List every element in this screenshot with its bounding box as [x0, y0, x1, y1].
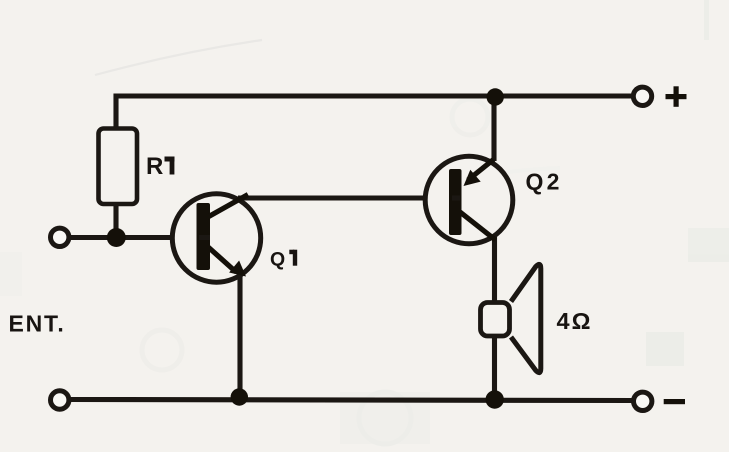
wire Q2 collector through speaker to bottom rail — [492, 236, 497, 399]
junction node Q2 / bottom rail — [486, 390, 504, 408]
speaker box — [481, 303, 510, 337]
svg-text:4Ω: 4Ω — [557, 308, 593, 334]
svg-text:R: R — [146, 153, 163, 180]
transistor Q1 — [172, 194, 260, 282]
transistor Q2 — [425, 156, 513, 244]
minus terminal — [634, 392, 652, 410]
wire bottom rail — [70, 400, 632, 401]
resistor R1 — [99, 129, 138, 205]
speaker cone — [511, 264, 541, 372]
bottom-left terminal — [51, 391, 69, 409]
svg-text:Q: Q — [270, 249, 285, 271]
plus sign — [666, 94, 687, 99]
junction node Q1 emitter / bottom rail — [231, 388, 248, 405]
wire input terminal to Q1 base — [69, 235, 199, 240]
junction node top rail / Q2 — [487, 88, 504, 105]
wire R1 bottom to input node — [113, 202, 118, 238]
junction node R1/input — [107, 228, 126, 247]
input terminal — [51, 228, 69, 246]
wire top rail from R1 corner to + terminal — [116, 96, 632, 128]
plus terminal — [633, 87, 651, 105]
wire Q1 collector to Q2 base — [238, 195, 452, 200]
minus sign — [664, 399, 685, 404]
wire top rail to Q2 emitter — [491, 96, 496, 161]
svg-text:Q2: Q2 — [526, 169, 563, 195]
svg-text:ENT.: ENT. — [9, 311, 66, 337]
wire Q1 emitter to bottom rail — [237, 274, 242, 398]
